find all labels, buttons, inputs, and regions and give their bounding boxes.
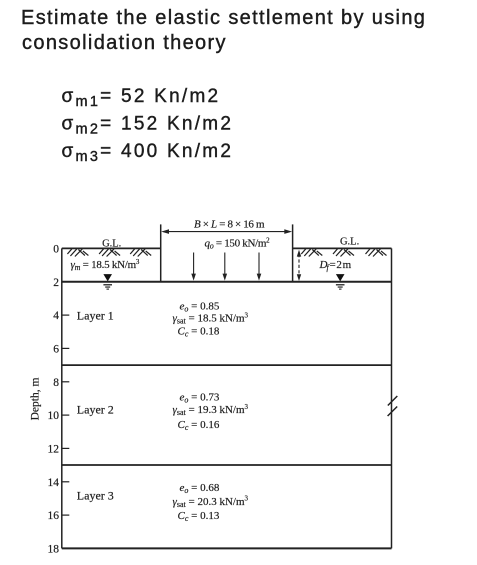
right edge vertical line	[391, 248, 393, 548]
layer line at 2 m (foundation base / water table)	[62, 281, 392, 283]
ground hatch clusters right	[301, 249, 386, 257]
svg-text:4: 4	[53, 310, 59, 322]
dimension arrow B x L	[161, 229, 292, 234]
svg-text:Depth, m: Depth, m	[30, 378, 42, 421]
foundation pit right wall	[292, 224, 294, 281]
depth axis vertical line	[61, 248, 63, 548]
ground line left segment	[62, 247, 161, 249]
depth axis ticks	[62, 315, 70, 515]
svg-text:σm1= 52 Kn/m2: σm1= 52 Kn/m2	[62, 86, 221, 110]
layer boundary at 13 m	[62, 464, 392, 466]
svg-text:eo = 0.68: eo = 0.68	[180, 482, 220, 495]
svg-text:γsat = 18.5 kN/m3: γsat = 18.5 kN/m3	[173, 312, 249, 326]
svg-text:Layer 2: Layer 2	[77, 402, 114, 416]
svg-text:14: 14	[48, 477, 60, 489]
svg-text:B × L = 8 × 16 m: B × L = 8 × 16 m	[194, 219, 265, 231]
svg-text:G.L.: G.L.	[102, 239, 121, 250]
svg-text:Cc = 0.18: Cc = 0.18	[178, 326, 220, 339]
svg-text:0: 0	[53, 243, 59, 255]
ground hatch clusters left	[67, 249, 151, 257]
break mark on right edge	[388, 396, 398, 416]
svg-text:8: 8	[53, 377, 59, 389]
svg-text:γsat = 19.3 kN/m3: γsat = 19.3 kN/m3	[173, 403, 249, 417]
svg-text:σm3= 400 Kn/m2: σm3= 400 Kn/m2	[62, 141, 234, 165]
svg-text:18: 18	[48, 543, 60, 555]
water table symbol left	[103, 274, 112, 290]
foundation pit left wall	[160, 224, 162, 281]
svg-text:γm = 18.5 kN/m3: γm = 18.5 kN/m3	[71, 258, 140, 272]
load arrow 1	[191, 253, 196, 281]
svg-text:Df = 2 m: Df = 2 m	[319, 259, 352, 272]
svg-text:2: 2	[53, 277, 59, 289]
svg-text:16: 16	[48, 510, 60, 522]
bottom line at 18 m	[62, 547, 392, 549]
svg-text:σm2= 152 Kn/m2: σm2= 152 Kn/m2	[62, 114, 234, 138]
svg-text:Layer 1: Layer 1	[77, 309, 114, 323]
svg-text:γsat = 20.3 kN/m3: γsat = 20.3 kN/m3	[173, 495, 249, 509]
load arrow 3	[257, 253, 262, 281]
svg-text:consolidation theory: consolidation theory	[22, 32, 227, 54]
svg-text:Cc = 0.16: Cc = 0.16	[178, 419, 220, 432]
svg-text:Cc = 0.13: Cc = 0.13	[178, 510, 220, 523]
depth of footing arrow D_f	[297, 250, 301, 281]
layer boundary at 7 m	[62, 364, 392, 366]
svg-text:G.L.: G.L.	[340, 237, 359, 248]
depth axis numbers	[48, 243, 60, 555]
svg-text:6: 6	[53, 343, 59, 355]
svg-text:10: 10	[48, 410, 60, 422]
svg-text:eo = 0.85: eo = 0.85	[180, 301, 220, 314]
svg-text:12: 12	[48, 443, 60, 455]
svg-text:eo = 0.73: eo = 0.73	[180, 391, 220, 404]
ground line right segment	[293, 247, 392, 249]
load arrow 2	[223, 253, 228, 281]
svg-text:Layer 3: Layer 3	[77, 489, 114, 503]
svg-text:qo = 150 kN/m2: qo = 150 kN/m2	[205, 236, 271, 250]
svg-text:Estimate the elastic settlemen: Estimate the elastic settlement by using	[21, 7, 426, 29]
water table symbol right	[336, 274, 345, 290]
